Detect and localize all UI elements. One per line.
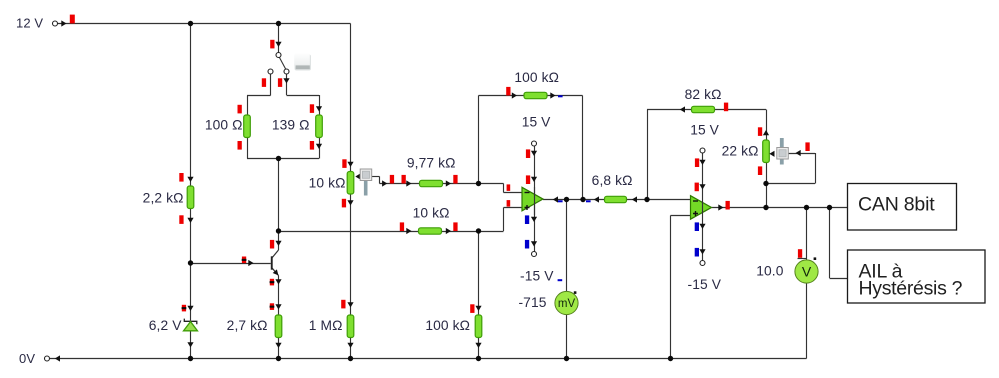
svg-text:-15 V: -15 V xyxy=(520,269,554,284)
svg-text:mV: mV xyxy=(558,298,576,310)
svg-text:2,7 kΩ: 2,7 kΩ xyxy=(227,318,268,333)
svg-text:10 kΩ: 10 kΩ xyxy=(413,206,450,221)
svg-text:-15 V: -15 V xyxy=(688,277,722,292)
svg-text:100 kΩ: 100 kΩ xyxy=(425,318,470,333)
svg-text:15 V: 15 V xyxy=(690,123,719,138)
svg-text:15 V: 15 V xyxy=(522,115,551,130)
svg-text:6,8 kΩ: 6,8 kΩ xyxy=(592,173,633,188)
svg-text:Hystérésis ?: Hystérésis ? xyxy=(859,278,963,300)
svg-text:V: V xyxy=(802,264,812,280)
svg-text:139 Ω: 139 Ω xyxy=(272,118,310,133)
svg-text:2,2 kΩ: 2,2 kΩ xyxy=(143,191,184,206)
svg-text:22 kΩ: 22 kΩ xyxy=(722,144,759,159)
svg-text:82 kΩ: 82 kΩ xyxy=(685,87,722,102)
svg-text:-715: -715 xyxy=(518,295,546,310)
svg-text:100 kΩ: 100 kΩ xyxy=(514,70,559,85)
svg-text:9,77 kΩ: 9,77 kΩ xyxy=(407,156,456,171)
svg-text:6,2 V: 6,2 V xyxy=(149,318,182,333)
svg-text:CAN 8bit: CAN 8bit xyxy=(858,194,935,216)
svg-text:100 Ω: 100 Ω xyxy=(205,118,243,133)
svg-text:1 MΩ: 1 MΩ xyxy=(309,318,343,333)
svg-text:10.0: 10.0 xyxy=(756,264,783,279)
svg-text:0V: 0V xyxy=(19,351,35,366)
svg-text:12 V: 12 V xyxy=(16,16,43,31)
svg-text:10 kΩ: 10 kΩ xyxy=(309,176,346,191)
